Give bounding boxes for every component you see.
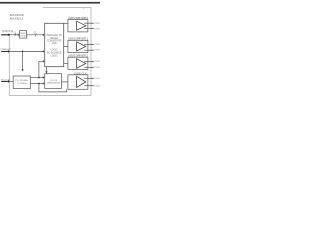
svg-text:PARALLEL TO: PARALLEL TO [47, 34, 62, 37]
svg-text:AND: AND [52, 42, 57, 45]
svg-text:TXOUT2-: TXOUT2- [94, 67, 100, 69]
svg-text:TXCLK-: TXCLK- [94, 86, 100, 88]
svg-text:TXOUT0-: TXOUT0- [94, 28, 100, 30]
svg-text:TXOUT1-: TXOUT1- [94, 50, 100, 52]
svg-text:PLL 32.5MHz: PLL 32.5MHz [16, 80, 29, 82]
svg-text:DIN[20:0]: DIN[20:0] [2, 29, 13, 33]
svg-text:LOGIC: LOGIC [51, 56, 58, 58]
svg-text:LOGIC: LOGIC [51, 49, 58, 51]
svg-text:MAX9213: MAX9213 [10, 16, 24, 20]
svg-text:TXOUT2+: TXOUT2+ [94, 61, 100, 63]
svg-text:TO 85MHz: TO 85MHz [17, 83, 27, 85]
svg-text:TIMING: TIMING [20, 33, 27, 35]
svg-text:TXOUT0+: TXOUT0+ [94, 23, 100, 25]
svg-text:CONTROL: CONTROL [18, 36, 29, 38]
svg-text:GENERATOR: GENERATOR [47, 82, 60, 85]
svg-text:DC BALANCE: DC BALANCE [47, 51, 62, 54]
svg-text:TXOUT1+: TXOUT1+ [94, 44, 100, 46]
svg-text:PWRDWN: PWRDWN [0, 49, 11, 51]
svg-text:TXCLK+: TXCLK+ [94, 78, 100, 80]
